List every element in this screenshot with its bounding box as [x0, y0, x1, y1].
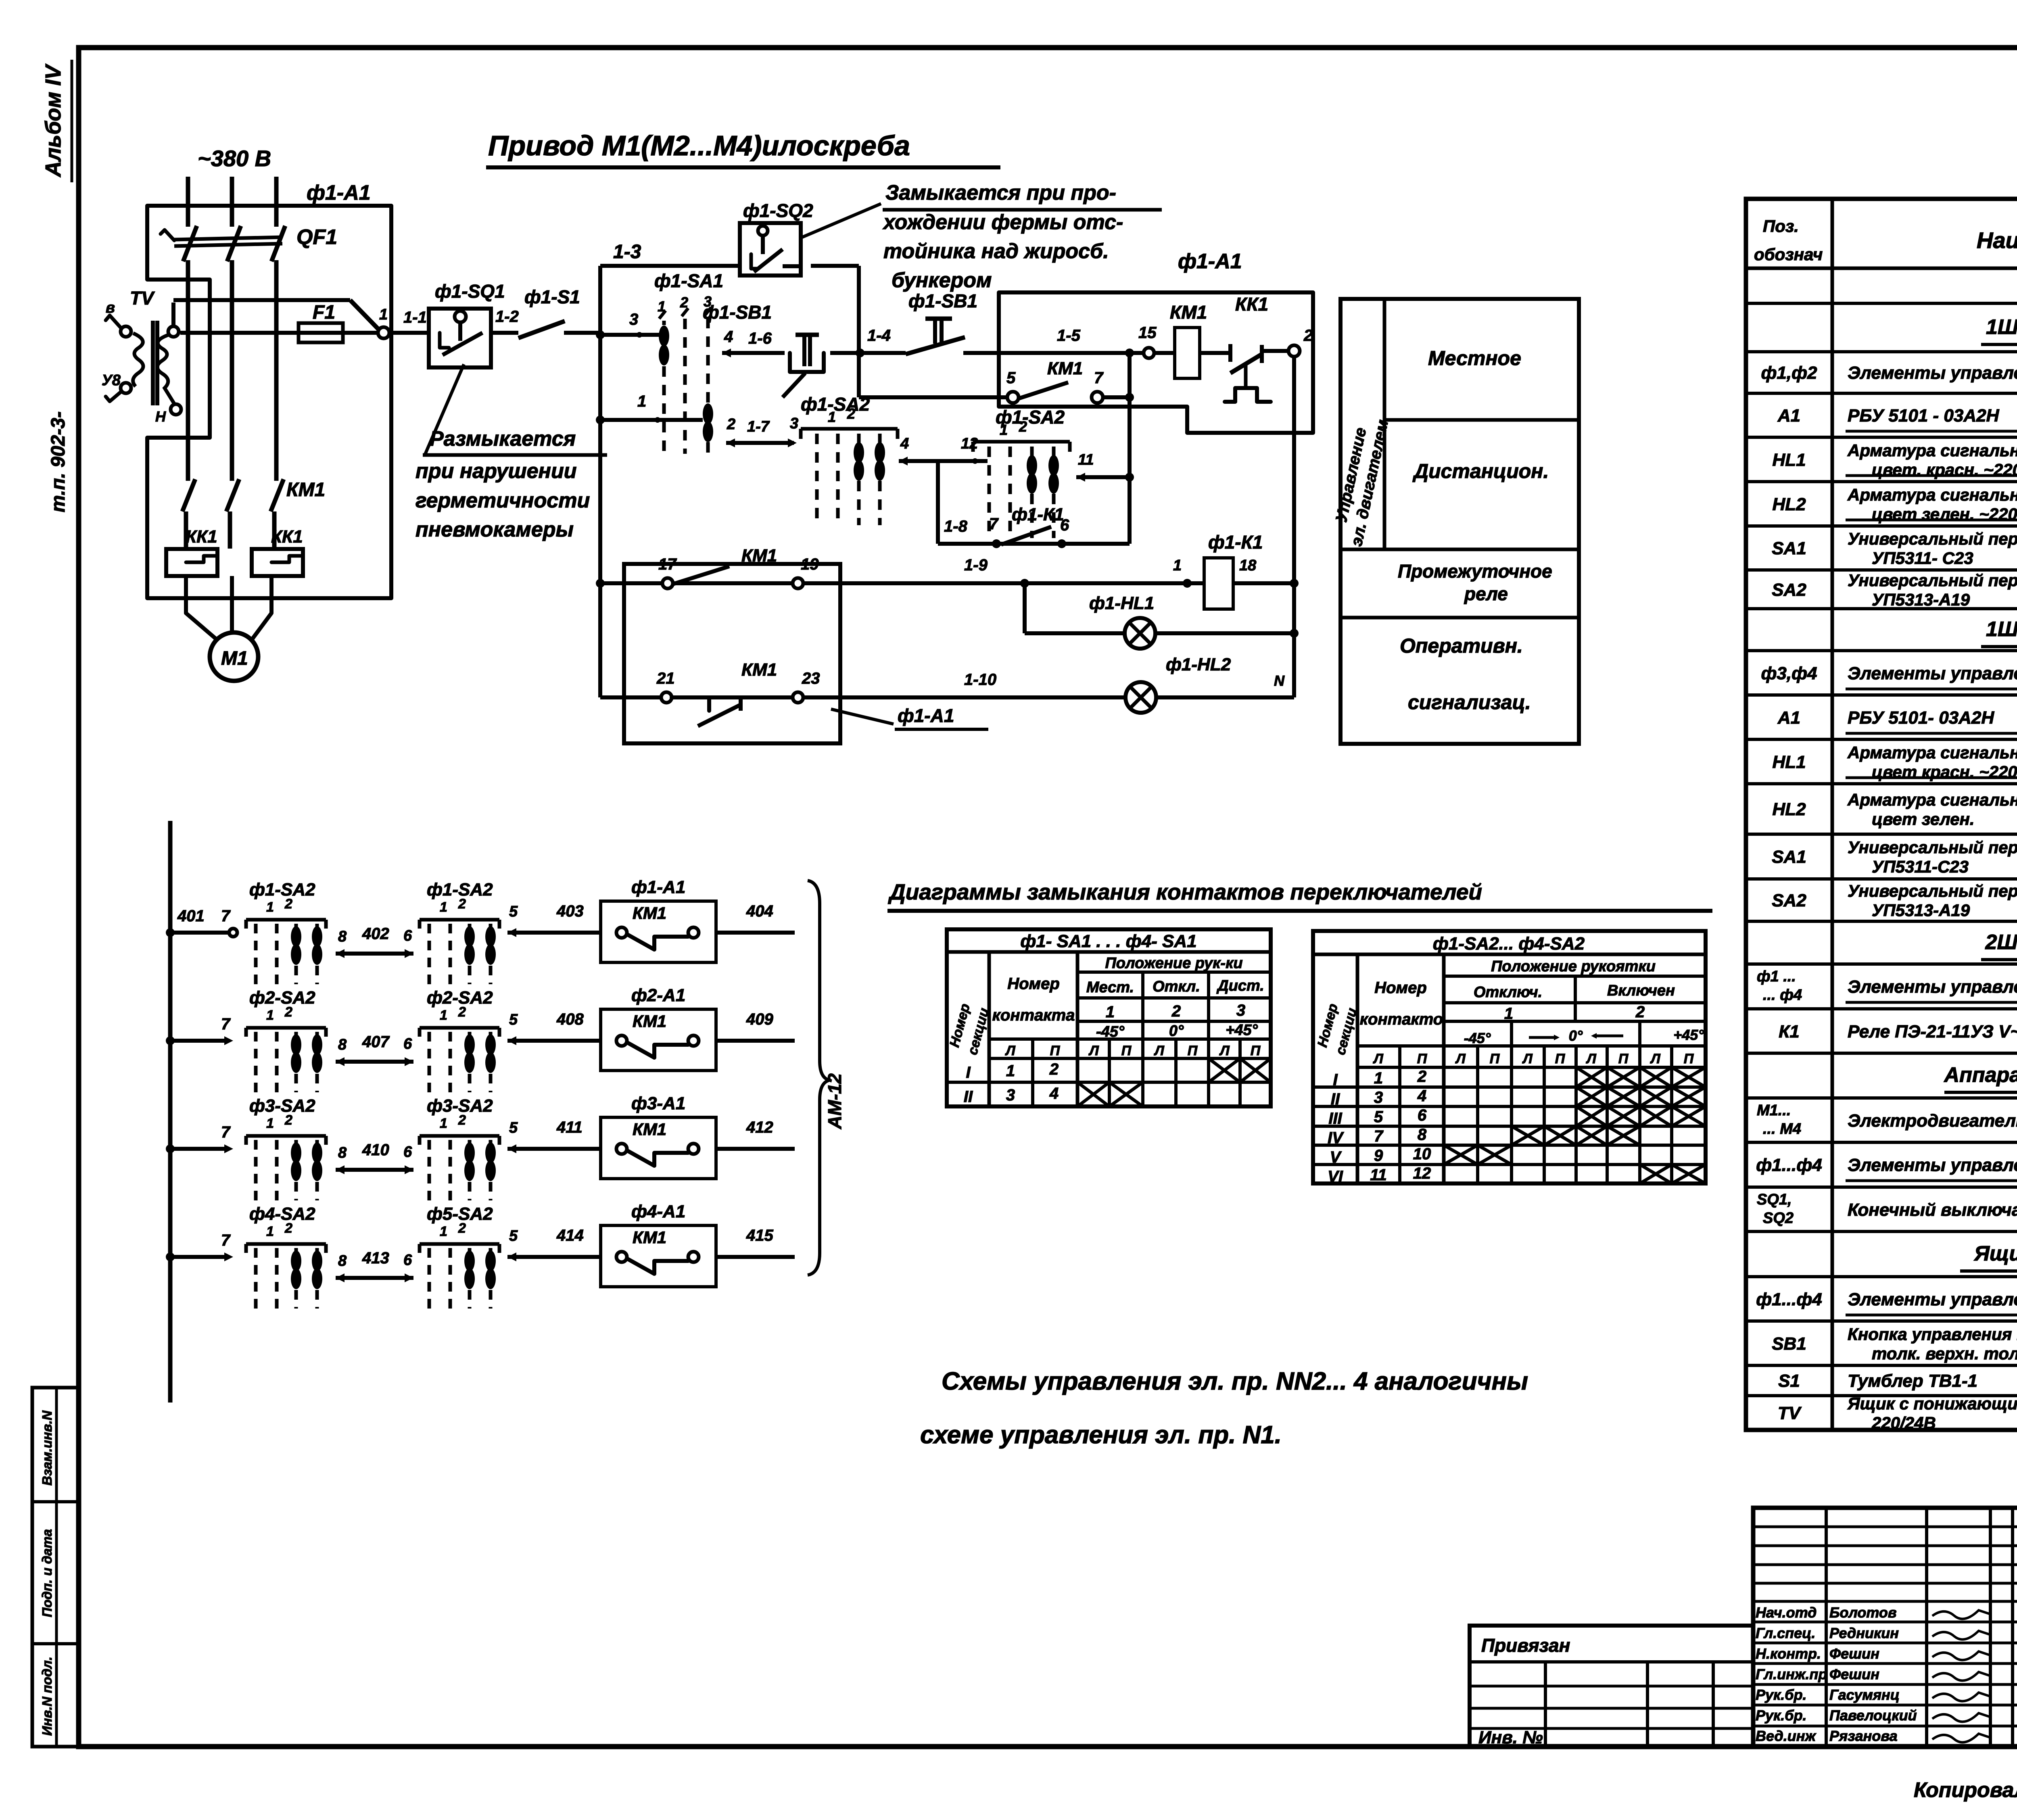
svg-text:КМ1: КМ1: [741, 660, 777, 680]
drawing title Привод М1(М2...М4)илоскреба: [486, 130, 1000, 167]
svg-text:Редникин: Редникин: [1829, 1625, 1899, 1641]
svg-text:2: 2: [458, 1112, 466, 1128]
svg-text:Мест.: Мест.: [1086, 979, 1134, 996]
svg-text:ф1-А1: ф1-А1: [631, 877, 685, 897]
svg-text:Дист.: Дист.: [1216, 977, 1264, 994]
svg-text:1: 1: [266, 1116, 274, 1131]
svg-text:7: 7: [221, 1123, 231, 1141]
svg-text:1-8: 1-8: [944, 518, 968, 535]
parts row ф3,ф4: [1761, 664, 2017, 689]
svg-text:403: 403: [556, 902, 584, 920]
svg-text:409: 409: [746, 1010, 773, 1028]
svg-text:Л: Л: [1153, 1043, 1164, 1058]
svg-text:15: 15: [1138, 324, 1157, 342]
svg-text:Реле ПЭ-21-11УЗ V~220В: Реле ПЭ-21-11УЗ V~220В: [1848, 1022, 2017, 1041]
svg-text:Арматура сигнальная ЛС-53: Арматура сигнальная ЛС-53: [1847, 790, 2017, 809]
svg-text:ф1-А1: ф1-А1: [1178, 250, 1242, 273]
contactor box ф2-А1 with KM1 contact (drive 2): [601, 985, 716, 1071]
svg-text:1ШЩ. Панель 1: 1ШЩ. Панель 1: [1986, 315, 2017, 339]
svg-text:8: 8: [338, 1252, 347, 1269]
selector switch ф1-SA2 (group 1): [801, 394, 898, 525]
svg-text:10: 10: [1413, 1145, 1431, 1163]
svg-text:ф4-SA2: ф4-SA2: [249, 1204, 315, 1224]
svg-text:КК1: КК1: [186, 527, 217, 547]
svg-text:П: П: [1121, 1043, 1132, 1058]
svg-text:КМ1: КМ1: [1047, 359, 1083, 378]
svg-text:КК1: КК1: [1235, 294, 1268, 315]
svg-text:Арматура сигнальная ЛС-53: Арматура сигнальная ЛС-53: [1847, 441, 2017, 460]
bus to relay contact row: [1128, 353, 1132, 544]
note Размыкается при нарушении герметичности пневмокамеры: [416, 364, 607, 541]
parts row ф1...ф4: [1756, 1290, 2017, 1315]
svg-text:П: П: [1050, 1043, 1061, 1058]
svg-text:F1: F1: [313, 302, 335, 323]
svg-text:6: 6: [403, 1144, 412, 1160]
wire row 21-23 (1-10) with KM1 break contact: [600, 660, 1125, 726]
signal lamp ф1-HL2: [1125, 655, 1294, 713]
svg-text:Взам.инв.N: Взам.инв.N: [40, 1410, 54, 1486]
svg-text:N: N: [1274, 672, 1285, 689]
wire 1-2: [491, 308, 519, 333]
panel boundary 1-3 (top edge and left bus): [600, 241, 859, 697]
svg-text:SB1: SB1: [1772, 1334, 1806, 1354]
svg-text:Положение рукоятки: Положение рукоятки: [1491, 958, 1656, 975]
svg-text:7: 7: [1374, 1127, 1384, 1145]
svg-text:Оперативн.: Оперативн.: [1400, 634, 1523, 657]
parts row SA1: [1772, 838, 2017, 876]
wire 414 (node 5) drive 4: [507, 1227, 601, 1261]
selector switch ф1-SA1: [654, 270, 723, 454]
svg-text:КМ1: КМ1: [286, 479, 325, 501]
svg-text:ф1-SA2: ф1-SA2: [249, 880, 315, 900]
wire from TV to switch node 1: [173, 300, 388, 329]
svg-text:5: 5: [1006, 369, 1016, 387]
margin label т.п. 902-3-: [48, 411, 69, 512]
svg-text:6: 6: [403, 927, 412, 944]
svg-text:Размыкается: Размыкается: [430, 427, 576, 451]
svg-text:TV: TV: [1778, 1403, 1802, 1423]
svg-text:Инв.N подл.: Инв.N подл.: [40, 1657, 54, 1736]
wire 410 (8-6) drive 3: [336, 1141, 413, 1174]
svg-text:SQ2: SQ2: [1763, 1210, 1794, 1227]
svg-text:5: 5: [509, 1227, 518, 1244]
svg-text:404: 404: [746, 902, 773, 920]
svg-text:Элементы управления эл.дв.М1..: Элементы управления эл.дв.М1...М4: [1848, 977, 2017, 997]
wire 1-4 with junction: [830, 327, 906, 357]
wire 1-7 (nodes 2-3): [726, 415, 798, 447]
parts row SB1: [1772, 1325, 2017, 1363]
svg-text:2: 2: [284, 1004, 292, 1020]
parts row К1: [1779, 1022, 2017, 1047]
svg-text:8: 8: [338, 928, 347, 945]
svg-text:КМ1: КМ1: [633, 1012, 666, 1031]
svg-text:ф3,ф4: ф3,ф4: [1761, 664, 1817, 683]
svg-text:ф1-SQ2: ф1-SQ2: [743, 200, 813, 221]
svg-text:Поз.: Поз.: [1763, 217, 1799, 236]
svg-text:реле: реле: [1464, 583, 1508, 604]
svg-text:Элементы управления эл.дв. М1.: Элементы управления эл.дв. М1...М4: [1848, 1155, 2017, 1175]
svg-text:4: 4: [1417, 1087, 1426, 1105]
svg-text:Тумблер ТВ1-1: Тумблер ТВ1-1: [1848, 1371, 1977, 1391]
svg-text:0°: 0°: [1169, 1023, 1184, 1039]
svg-text:SQ1,: SQ1,: [1757, 1191, 1792, 1208]
svg-text:411: 411: [556, 1119, 583, 1136]
wire 412 drive 3: [716, 1119, 795, 1149]
svg-text:3: 3: [790, 415, 798, 432]
svg-text:Электродвигатель ~380в: Электродвигатель ~380в: [1848, 1111, 2017, 1131]
svg-text:4: 4: [724, 328, 733, 346]
wire node 3 (row to SA1): [596, 311, 662, 339]
parts row S1: [1778, 1371, 2017, 1396]
svg-text:Вед.инж: Вед.инж: [1756, 1728, 1817, 1744]
svg-text:412: 412: [746, 1119, 773, 1136]
circuit breaker QF1: [161, 225, 337, 261]
selector switch ф2-SA2 (right group, drive 2): [420, 988, 499, 1092]
fuse F1: [299, 302, 378, 342]
svg-text:УП5311-С23: УП5311-С23: [1872, 857, 1969, 876]
svg-text:П: П: [1555, 1051, 1566, 1067]
svg-text:Наименование: Наименование: [1977, 227, 2017, 253]
svg-text:Положение рук-ки: Положение рук-ки: [1105, 955, 1242, 972]
svg-text:9: 9: [1374, 1147, 1383, 1165]
svg-text:Ящик с понижающим тр-р ЯТП-025: Ящик с понижающим тр-р ЯТП-025: [1847, 1394, 2017, 1413]
svg-text:Универсальный переключатель: Универсальный переключатель: [1848, 838, 2017, 857]
svg-text:КМ1: КМ1: [633, 1120, 666, 1139]
svg-text:ф1-А1: ф1-А1: [898, 705, 954, 726]
svg-text:ф1...ф4: ф1...ф4: [1756, 1290, 1822, 1309]
svg-text:ф1-К1: ф1-К1: [1208, 532, 1263, 553]
svg-text:контакта: контакта: [992, 1006, 1075, 1024]
svg-text:11: 11: [1370, 1166, 1387, 1184]
svg-text:т.п. 902-3-: т.п. 902-3-: [48, 411, 69, 512]
note Схемы управления эл.пр. NN2...4 аналогичны: [920, 1367, 1528, 1449]
svg-text:1-1: 1-1: [403, 309, 427, 326]
svg-text:6: 6: [1060, 516, 1069, 534]
svg-text:QF1: QF1: [296, 225, 337, 249]
svg-text:SA1: SA1: [1772, 538, 1806, 558]
svg-text:6: 6: [1418, 1106, 1427, 1124]
svg-text:УП5313-А19: УП5313-А19: [1872, 590, 1970, 609]
svg-text:А1: А1: [1777, 708, 1800, 728]
svg-text:Диаграммы замыкания контактов: Диаграммы замыкания контактов переключат…: [888, 879, 1482, 904]
svg-text:цвет зелен.: цвет зелен.: [1872, 810, 1975, 829]
svg-text:тойника над жиросб.: тойника над жиросб.: [883, 240, 1109, 263]
svg-text:Универсальный переключатель: Универсальный переключатель: [1848, 881, 2017, 900]
svg-text:1: 1: [440, 1224, 447, 1239]
margin label Альбом IV: [41, 60, 72, 182]
svg-text:Элементы управления эл.дв. М3,: Элементы управления эл.дв. М3,М4: [1848, 664, 2017, 683]
svg-text:при нарушении: при нарушении: [416, 459, 577, 483]
wire row 17-19 (1-9) with KM1 aux contact: [596, 546, 1204, 589]
mode table Управление эл.двигателем: [1332, 299, 1579, 744]
svg-text:толк. верхн. толк. нижн.: толк. верхн. толк. нижн.: [1872, 1344, 2017, 1363]
svg-text:Конечный выключатель: Конечный выключатель: [1848, 1200, 2017, 1220]
svg-text:Л: Л: [1585, 1051, 1596, 1067]
svg-text:РБУ 5101- 03А2Н: РБУ 5101- 03А2Н: [1848, 708, 1994, 728]
svg-text:ф2-А1: ф2-А1: [631, 985, 685, 1005]
svg-text:1-4: 1-4: [867, 327, 891, 344]
margin stamp table (Взам.инв.N / Подп. и дата / Инв.N подл.): [32, 1388, 79, 1747]
svg-text:П: П: [1490, 1051, 1500, 1067]
svg-text:пневмокамеры: пневмокамеры: [416, 518, 574, 541]
svg-text:Элементы управления эл.дв. М1.: Элементы управления эл.дв. М1... М4: [1848, 1290, 2017, 1309]
node 2 and right bus: [1288, 327, 1313, 697]
svg-text:1-3: 1-3: [613, 241, 641, 263]
svg-text:Схемы управления эл. пр. NN2: Схемы управления эл. пр. NN2... 4 аналог…: [942, 1367, 1528, 1395]
wire 413 (8-6) drive 4: [336, 1249, 413, 1282]
panel boundary box ф1-А1 (power section): [147, 181, 391, 598]
wire 402 (8-6) drive 1: [336, 925, 413, 958]
svg-text:ф2-SA2: ф2-SA2: [249, 988, 315, 1008]
svg-text:VI: VI: [1328, 1168, 1343, 1186]
svg-text:11: 11: [1078, 451, 1094, 468]
svg-text:SA2: SA2: [1772, 891, 1806, 910]
svg-text:Местное: Местное: [1428, 347, 1521, 369]
title block grid: [1753, 1508, 2017, 1747]
parts row SA2: [1772, 881, 2017, 920]
wire 1-6 (node 4): [722, 328, 785, 357]
svg-text:6: 6: [403, 1035, 412, 1052]
contactor coil KM1: [1170, 302, 1207, 378]
wire 1-5 to contactor coil: [963, 324, 1175, 358]
phase wire L1: [186, 177, 190, 481]
wire 404 drive 1: [716, 902, 795, 933]
svg-text:Кнопка управления ПКЕ212-2УЗ: Кнопка управления ПКЕ212-2УЗ: [1848, 1325, 2017, 1344]
diagrams title: [887, 879, 1712, 911]
svg-text:1: 1: [440, 900, 447, 915]
svg-text:Гл.спец.: Гл.спец.: [1756, 1625, 1815, 1641]
thermal relay KK1 heater (phase A): [166, 527, 217, 590]
svg-text:Подп. и дата: Подп. и дата: [40, 1529, 54, 1618]
svg-text:2: 2: [458, 896, 466, 912]
svg-text:21: 21: [656, 670, 675, 687]
svg-text:Л: Л: [1522, 1051, 1533, 1067]
parts row HL2: [1772, 485, 2017, 524]
svg-text:SA1: SA1: [1772, 847, 1806, 867]
svg-text:КМ1: КМ1: [1170, 302, 1207, 323]
selector switch ф1-SA2 (left group, drive 1): [246, 880, 326, 984]
svg-text:23: 23: [802, 670, 820, 687]
svg-text:ф1-SA1: ф1-SA1: [654, 270, 723, 291]
svg-text:ф1-НL1: ф1-НL1: [1089, 593, 1154, 613]
svg-text:К1: К1: [1779, 1022, 1800, 1041]
svg-text:2: 2: [1019, 418, 1027, 435]
svg-text:Привод М1(М2...М4)илоскреба: Привод М1(М2...М4)илоскреба: [488, 130, 910, 161]
wire 411 (node 5) drive 3: [507, 1119, 601, 1153]
svg-text:1-2: 1-2: [495, 308, 519, 326]
svg-text:ф3-А1: ф3-А1: [631, 1094, 685, 1113]
svg-text:~380 В: ~380 В: [198, 146, 271, 171]
svg-text:УП5311- С23: УП5311- С23: [1872, 549, 1973, 568]
svg-text:Арматура сигнальная ЛС-53: Арматура сигнальная ЛС-53: [1847, 743, 2017, 762]
svg-text:Номер: Номер: [1374, 979, 1427, 997]
svg-text:ф1 ...: ф1 ...: [1757, 968, 1796, 985]
svg-text:2: 2: [1635, 1003, 1645, 1021]
relay coil ф1-К1: [1204, 532, 1299, 609]
svg-text:413: 413: [362, 1249, 389, 1267]
svg-text:Инв. №: Инв. №: [1478, 1728, 1543, 1747]
svg-text:Рук.бр.: Рук.бр.: [1756, 1686, 1807, 1703]
auxiliary contact KM1 (5-7): [859, 359, 1134, 403]
power bus ~380 В label: [198, 146, 271, 171]
wire 408 (node 5) drive 2: [507, 1010, 601, 1045]
svg-text:Фешин: Фешин: [1829, 1666, 1879, 1682]
svg-text:5: 5: [509, 1119, 518, 1136]
svg-text:ф3-SA2: ф3-SA2: [249, 1096, 315, 1116]
svg-text:7: 7: [221, 907, 231, 925]
svg-text:1: 1: [1374, 1069, 1383, 1087]
svg-text:1-9: 1-9: [964, 556, 988, 574]
svg-text:Л: Л: [1219, 1043, 1230, 1058]
parts row HL1: [1772, 441, 2017, 479]
svg-text:Привязан: Привязан: [1481, 1635, 1570, 1656]
pushbutton ф1-SB1 (make contact): [906, 290, 977, 354]
svg-text:Рязанова: Рязанова: [1829, 1728, 1898, 1744]
svg-text:Гасумянц: Гасумянц: [1829, 1686, 1900, 1703]
phase wire L3: [274, 177, 279, 481]
svg-text:Элементы управления эл.дв. М1: Элементы управления эл.дв. М1, М2: [1848, 363, 2017, 383]
wire main 220V feed with node circle: [180, 327, 389, 338]
svg-text:2: 2: [847, 405, 855, 422]
svg-text:2: 2: [727, 416, 735, 433]
pushbutton ф1-SB1 (break contact): [703, 302, 824, 397]
svg-text:5: 5: [509, 1011, 518, 1028]
bottom margin Копировал / format: [1914, 1772, 2017, 1807]
svg-text:415: 415: [746, 1227, 773, 1244]
parts group heading 1ШЩ. Панель 6: [1981, 618, 2017, 647]
selector switch ф1-SA2 (right group, drive 1): [420, 880, 499, 984]
parts row М1...: [1757, 1102, 2017, 1137]
svg-text:7: 7: [221, 1231, 231, 1249]
svg-text:5: 5: [509, 903, 518, 920]
parts row SA2: [1772, 571, 2017, 609]
svg-text:6: 6: [403, 1252, 412, 1269]
svg-text:Л: Л: [1004, 1043, 1015, 1058]
svg-text:HL2: HL2: [1772, 799, 1806, 819]
svg-text:4: 4: [900, 435, 909, 452]
svg-text:0°: 0°: [1569, 1027, 1583, 1044]
svg-text:сигнализац.: сигнализац.: [1408, 691, 1531, 714]
svg-text:Включен: Включен: [1607, 982, 1675, 999]
svg-text:ф4-А1: ф4-А1: [631, 1202, 685, 1221]
svg-text:Универсальный переключатель: Универсальный переключатель: [1848, 529, 2017, 548]
svg-text:Альбом IV: Альбом IV: [41, 64, 65, 178]
svg-text:М1...: М1...: [1757, 1102, 1791, 1119]
phase wire L2: [230, 177, 234, 481]
relay contact ф1-К1 (row 1-8, 7-6): [938, 505, 1130, 548]
svg-text:Копировал:: Копировал:: [1914, 1778, 2017, 1802]
svg-text:TV: TV: [130, 288, 155, 309]
parts row SQ1,: [1757, 1190, 2017, 1231]
wire node 4 / 12: [899, 435, 988, 544]
svg-text:I: I: [966, 1064, 971, 1081]
wire node 1 (row to SA1 line3): [596, 392, 703, 424]
svg-text:1: 1: [1000, 422, 1008, 438]
svg-text:1: 1: [1504, 1005, 1513, 1023]
panel boundary box ф1-А1 (control section): [999, 250, 1313, 433]
svg-text:ф1-SB1: ф1-SB1: [703, 302, 772, 323]
svg-text:414: 414: [556, 1227, 584, 1244]
wire node 11: [1076, 451, 1134, 482]
wire 409 drive 2: [716, 1010, 795, 1041]
contact diagram table SA1: [947, 929, 1271, 1106]
svg-text:Н: Н: [155, 408, 166, 425]
svg-text:1: 1: [637, 392, 646, 410]
svg-text:П: П: [1684, 1051, 1694, 1067]
svg-text:1: 1: [266, 900, 274, 915]
selector switch ф2-SA2 (left group, drive 2): [246, 988, 326, 1092]
parts row TV: [1778, 1394, 2017, 1432]
svg-text:HL2: HL2: [1772, 495, 1806, 514]
svg-text:2: 2: [284, 1221, 292, 1236]
svg-text:УП5313-А19: УП5313-А19: [1872, 901, 1970, 920]
toggle switch ф1-S1: [518, 286, 600, 338]
svg-text:1-5: 1-5: [1057, 327, 1081, 344]
parts row SA1: [1772, 529, 2017, 568]
svg-text:401: 401: [177, 907, 205, 925]
wire 1-1: [389, 309, 429, 333]
svg-text:410: 410: [362, 1141, 389, 1159]
contactor box ф4-А1 with KM1 contact (drive 4): [601, 1202, 716, 1287]
svg-text:Л: Л: [1650, 1051, 1660, 1067]
limit switch ф1-SQ2: [740, 200, 813, 276]
svg-text:РБУ 5101 - 03А2Н: РБУ 5101 - 03А2Н: [1848, 406, 2000, 426]
svg-text:П: П: [1188, 1043, 1198, 1058]
svg-text:12: 12: [1413, 1165, 1431, 1182]
svg-text:ф1-SQ1: ф1-SQ1: [435, 281, 505, 302]
parts group heading Аппаратура по месту.: [1944, 1063, 2017, 1092]
svg-text:18: 18: [1239, 557, 1257, 574]
svg-text:-45°: -45°: [1096, 1023, 1125, 1040]
parts row ф1,ф2: [1761, 363, 2017, 388]
svg-text:7: 7: [1094, 369, 1104, 387]
wire 403 (node 5) drive 1: [507, 902, 601, 937]
svg-text:I: I: [1333, 1071, 1338, 1089]
svg-text:Л: Л: [1372, 1051, 1383, 1067]
svg-text:3: 3: [1006, 1086, 1015, 1104]
drive 2 tap from bus (node 7): [166, 1015, 233, 1045]
svg-text:II: II: [1331, 1090, 1340, 1108]
svg-text:2: 2: [458, 1004, 466, 1020]
svg-text:Универсальный переключатель: Универсальный переключатель: [1848, 571, 2017, 590]
svg-text:2: 2: [1049, 1060, 1059, 1078]
svg-text:схеме управления эл. пр. N1.: схеме управления эл. пр. N1.: [920, 1421, 1282, 1449]
svg-text:Отключ.: Отключ.: [1474, 984, 1542, 1001]
drive 1 tap from bus (node 7): [166, 907, 237, 937]
svg-text:хождении фермы отс-: хождении фермы отс-: [882, 211, 1123, 234]
svg-text:III: III: [1328, 1110, 1342, 1127]
svg-text:1: 1: [266, 1008, 274, 1023]
parts list table grid: [1746, 199, 2017, 1430]
svg-text:Нач.отд: Нач.отд: [1756, 1604, 1817, 1621]
svg-text:2: 2: [1417, 1068, 1426, 1085]
transformer TV: [102, 288, 181, 425]
svg-text:Гл.инж.пр: Гл.инж.пр: [1756, 1666, 1827, 1682]
cable group brace АМ-12: [808, 881, 845, 1275]
limit switch ф1-SQ1: [429, 281, 505, 367]
svg-text:КМ1: КМ1: [633, 1228, 666, 1247]
svg-text:HL1: HL1: [1772, 752, 1806, 772]
svg-text:Рук.бр.: Рук.бр.: [1756, 1707, 1807, 1724]
svg-text:Замыкается при про-: Замыкается при про-: [885, 181, 1116, 205]
svg-text:IV: IV: [1328, 1129, 1344, 1147]
parts row ф1...ф4: [1756, 1155, 2017, 1181]
parts row ф1 ...: [1757, 968, 2017, 1004]
svg-text:герметичности: герметичности: [416, 489, 590, 512]
svg-text:Промежуточное: Промежуточное: [1398, 561, 1552, 582]
svg-text:407: 407: [362, 1033, 390, 1051]
svg-text:-45°: -45°: [1464, 1030, 1491, 1046]
